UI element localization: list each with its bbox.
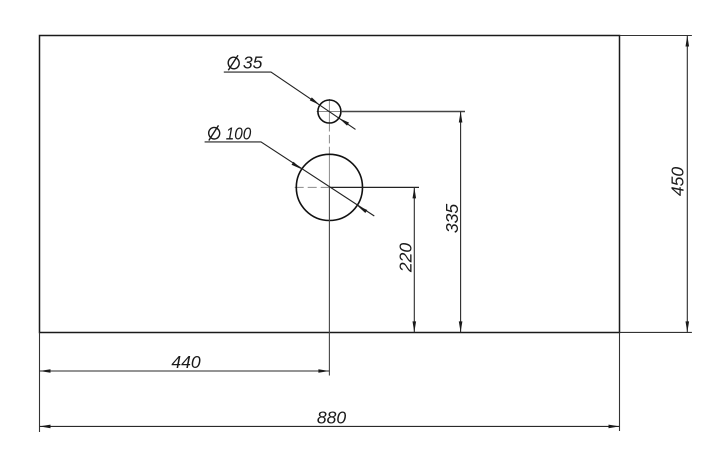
svg-text:440: 440 [171,352,201,372]
svg-text:35: 35 [243,53,263,73]
svg-text:220: 220 [395,243,415,274]
svg-text:100: 100 [226,123,252,143]
svg-text:450: 450 [667,167,687,197]
svg-text:335: 335 [442,204,462,234]
svg-text:880: 880 [317,408,347,428]
